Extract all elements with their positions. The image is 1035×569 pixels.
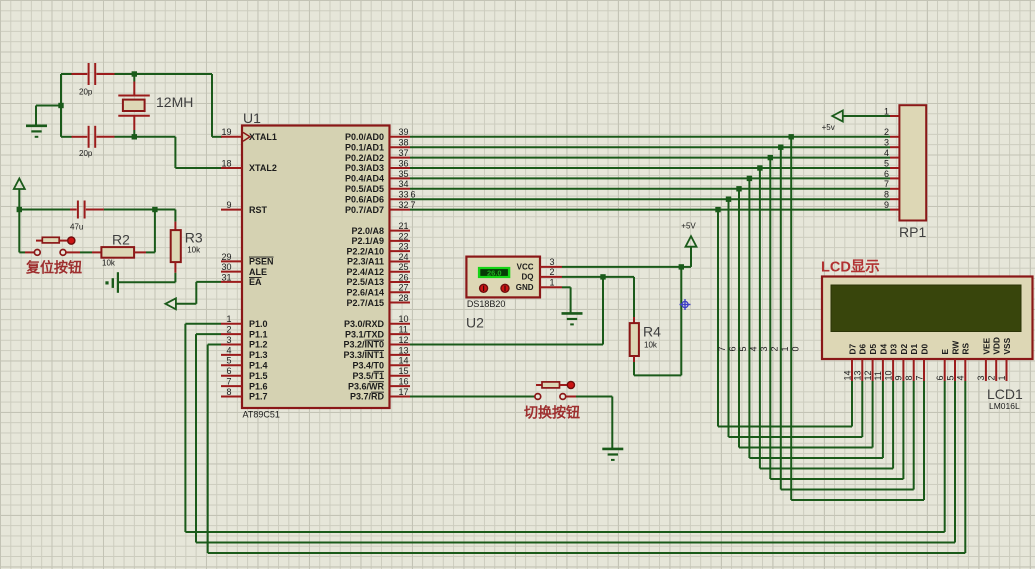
svg-text:P2.2/A10: P2.2/A10 [346,246,384,256]
svg-text:D3: D3 [889,344,899,355]
svg-text:P1.1: P1.1 [249,329,268,339]
svg-text:+5v: +5v [822,123,835,132]
svg-text:9: 9 [884,200,889,210]
svg-text:P1.5: P1.5 [249,371,268,381]
svg-text:12: 12 [863,370,873,380]
svg-text:D5: D5 [868,344,878,355]
svg-text:LCD1: LCD1 [987,386,1023,402]
svg-text:31: 31 [221,272,231,282]
svg-text:5: 5 [884,158,889,168]
svg-text:5: 5 [945,375,955,380]
svg-text:复位按钮: 复位按钮 [25,260,82,276]
svg-text:DS18B20: DS18B20 [467,299,506,309]
svg-text:P2.5/A13: P2.5/A13 [346,277,384,287]
svg-text:3: 3 [759,346,769,351]
svg-text:11: 11 [399,325,408,335]
svg-text:E: E [940,349,950,355]
svg-text:LCD显示: LCD显示 [821,259,880,276]
svg-text:6: 6 [884,169,889,179]
svg-text:1: 1 [884,106,889,116]
svg-text:PSEN: PSEN [249,257,274,267]
svg-text:P1.7: P1.7 [249,392,268,402]
svg-text:10k: 10k [187,246,201,255]
svg-text:2: 2 [549,267,554,277]
svg-text:23: 23 [399,242,409,252]
svg-text:+5V: +5V [681,222,696,231]
svg-text:7: 7 [884,179,889,189]
svg-text:36: 36 [399,158,409,168]
svg-text:VSS: VSS [1002,337,1012,354]
svg-text:DQ: DQ [522,273,534,282]
svg-text:RW: RW [950,341,960,355]
svg-text:13: 13 [399,345,409,355]
svg-text:RS: RS [961,343,971,355]
svg-text:2: 2 [770,346,780,351]
svg-text:P3.3/INT1: P3.3/INT1 [343,350,384,360]
svg-text:38: 38 [399,138,409,148]
svg-text:VDD: VDD [992,337,1002,355]
svg-text:P0.5/AD5: P0.5/AD5 [345,184,384,194]
svg-text:26: 26 [399,272,409,282]
svg-text:2: 2 [884,127,889,137]
svg-text:U1: U1 [243,110,261,126]
svg-text:14: 14 [842,370,852,380]
svg-text:0: 0 [790,346,800,351]
svg-text:28: 28 [399,293,409,303]
svg-text:R3: R3 [185,230,203,246]
svg-text:P0.3/AD3: P0.3/AD3 [345,163,384,173]
svg-text:P0.2/AD2: P0.2/AD2 [345,153,384,163]
svg-text:4: 4 [749,346,759,351]
svg-text:D7: D7 [847,344,857,355]
svg-text:10: 10 [883,370,893,380]
svg-text:8: 8 [884,190,889,200]
svg-text:1: 1 [780,346,790,351]
svg-text:切换按钮: 切换按钮 [524,405,580,421]
svg-text:47u: 47u [70,223,83,232]
svg-text:AT89C51: AT89C51 [243,410,280,420]
svg-text:P1.3: P1.3 [249,350,268,360]
svg-text:4: 4 [226,345,231,355]
svg-text:37: 37 [399,148,409,158]
svg-text:10k: 10k [102,259,116,268]
svg-text:2: 2 [987,375,997,380]
svg-text:8: 8 [904,375,914,380]
svg-text:7: 7 [717,346,727,351]
svg-text:P2.7/A15: P2.7/A15 [346,298,384,308]
svg-text:P0.4/AD4: P0.4/AD4 [345,174,384,184]
svg-text:34: 34 [399,179,409,189]
svg-text:29: 29 [221,252,231,262]
svg-text:P2.3/A11: P2.3/A11 [347,257,384,267]
svg-text:21: 21 [399,221,409,231]
svg-text:24: 24 [399,252,409,262]
svg-text:1: 1 [549,278,554,288]
svg-text:26.0: 26.0 [487,268,502,277]
svg-text:4: 4 [884,148,889,158]
svg-text:7: 7 [914,375,924,380]
svg-text:P3.7/RD: P3.7/RD [350,392,385,402]
svg-text:D1: D1 [909,344,919,355]
svg-text:7: 7 [226,377,231,387]
svg-text:6: 6 [935,375,945,380]
svg-text:3: 3 [976,375,986,380]
svg-text:5: 5 [738,346,748,351]
svg-text:13: 13 [853,370,863,380]
svg-text:17: 17 [399,387,409,397]
svg-text:EA: EA [249,277,262,287]
svg-text:P1.4: P1.4 [249,361,268,371]
svg-text:20p: 20p [79,149,93,158]
svg-text:P1.6: P1.6 [249,381,268,391]
svg-text:P0.0/AD0: P0.0/AD0 [345,132,384,142]
svg-text:LM016L: LM016L [989,401,1020,411]
svg-text:7: 7 [411,200,416,210]
svg-text:XTAL1: XTAL1 [249,132,277,142]
svg-text:6: 6 [411,190,416,200]
svg-text:9: 9 [226,200,231,210]
svg-text:RP1: RP1 [899,224,926,240]
svg-text:P3.2/INT0: P3.2/INT0 [343,340,384,350]
svg-text:P3.0/RXD: P3.0/RXD [344,319,385,329]
svg-text:10k: 10k [644,341,658,350]
svg-text:12: 12 [399,335,409,345]
svg-text:P3.5/T1: P3.5/T1 [352,371,384,381]
svg-text:1: 1 [226,314,231,324]
svg-text:D2: D2 [899,344,909,355]
svg-text:16: 16 [399,377,409,387]
svg-text:VEE: VEE [981,337,991,354]
svg-text:8: 8 [226,387,231,397]
svg-text:33: 33 [399,190,409,200]
svg-text:D4: D4 [878,344,888,355]
svg-text:39: 39 [399,127,409,137]
svg-text:6: 6 [226,366,231,376]
svg-text:U2: U2 [466,315,484,331]
svg-text:P0.1/AD1: P0.1/AD1 [345,142,384,152]
svg-text:R4: R4 [643,324,661,340]
svg-text:XTAL2: XTAL2 [249,163,277,173]
svg-text:3: 3 [884,138,889,148]
svg-text:P3.1/TXD: P3.1/TXD [345,329,385,339]
svg-text:P2.0/A8: P2.0/A8 [351,226,384,236]
svg-text:P3.4/T0: P3.4/T0 [352,361,384,371]
svg-text:35: 35 [399,169,409,179]
svg-text:P2.6/A14: P2.6/A14 [346,287,384,297]
svg-text:22: 22 [399,231,409,241]
svg-text:12MH: 12MH [156,94,193,110]
svg-text:D0: D0 [919,344,929,355]
svg-text:30: 30 [221,262,231,272]
svg-text:5: 5 [226,356,231,366]
svg-text:RST: RST [249,205,268,215]
svg-text:P1.2: P1.2 [249,340,268,350]
svg-text:19: 19 [221,127,231,137]
svg-text:D6: D6 [858,344,868,355]
svg-text:ALE: ALE [249,267,267,277]
svg-text:15: 15 [399,366,409,376]
svg-text:18: 18 [221,158,231,168]
svg-text:9: 9 [894,375,904,380]
svg-text:P0.7/AD7: P0.7/AD7 [345,205,384,215]
svg-text:P1.0: P1.0 [249,319,268,329]
svg-text:3: 3 [226,335,231,345]
svg-text:11: 11 [873,371,883,380]
svg-text:P2.1/A9: P2.1/A9 [351,236,384,246]
svg-text:R2: R2 [112,232,130,248]
svg-text:VCC: VCC [517,263,534,272]
svg-text:P2.4/A12: P2.4/A12 [346,267,384,277]
svg-text:20p: 20p [79,88,93,97]
svg-text:2: 2 [226,325,231,335]
svg-text:P3.6/WR: P3.6/WR [348,381,385,391]
svg-text:27: 27 [399,283,409,293]
svg-text:4: 4 [956,375,966,380]
svg-text:1: 1 [997,375,1007,380]
svg-text:6: 6 [728,346,738,351]
svg-text:14: 14 [399,356,409,366]
svg-text:P0.6/AD6: P0.6/AD6 [345,194,384,204]
svg-text:10: 10 [399,314,409,324]
svg-text:25: 25 [399,262,409,272]
svg-text:GND: GND [516,283,534,292]
svg-text:3: 3 [549,257,554,267]
svg-text:32: 32 [399,200,409,210]
